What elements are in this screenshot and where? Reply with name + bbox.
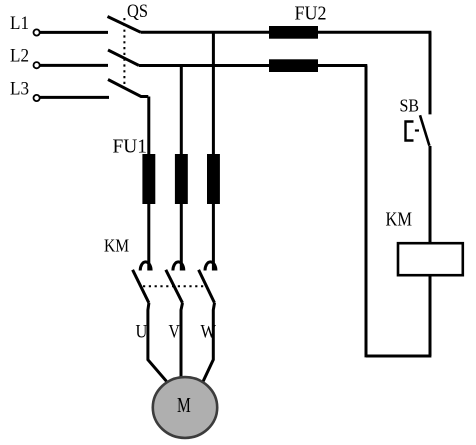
wire top line drop to SB: [429, 32, 432, 114]
wire U phase to motor: [148, 303, 167, 381]
wire phase B drop at x=181: [180, 66, 183, 271]
svg-text:FU2: FU2: [295, 3, 327, 25]
wire phase B: QS to corner: [139, 64, 367, 67]
contact KM3 arc: [205, 262, 216, 271]
contact KM1 blade: [133, 270, 149, 303]
wire V phase to motor: [181, 303, 183, 378]
fuse FU2-1 body: [269, 26, 318, 39]
wire left return riser: [365, 66, 368, 358]
wire phase C drop at x=148.8: [147, 97, 150, 271]
contactor KM linkage (dotted): [143, 285, 206, 287]
wire bottom return: [366, 355, 431, 358]
node L3 terminal: [34, 95, 40, 101]
contact KM2 arc: [173, 262, 184, 271]
switch QS linkage (dotted): [123, 18, 125, 88]
wire KM coil down: [429, 275, 432, 356]
svg-text:L3: L3: [10, 79, 29, 100]
wire L3 to QS: [40, 96, 109, 99]
wire L2 to QS: [40, 64, 108, 67]
coil KM body: [398, 243, 463, 275]
fuse FU1-2 body: [175, 154, 188, 204]
svg-text:L2: L2: [10, 46, 29, 67]
fuse FU1-3 body: [207, 154, 220, 204]
switch QS blade 3: [108, 80, 148, 97]
fuse FU2-2 body: [269, 59, 318, 72]
svg-text:KM: KM: [386, 210, 413, 231]
wire L1 to QS: [40, 31, 108, 34]
svg-text:L1: L1: [10, 13, 29, 34]
fuse FU1-1 body: [142, 154, 155, 204]
svg-text:M: M: [177, 393, 191, 417]
contact KM2 blade: [166, 270, 183, 303]
wire phase A drop at x=213: [212, 32, 215, 270]
contact KM1 arc: [140, 262, 151, 271]
svg-text:U: U: [136, 322, 148, 343]
wire SB to KM coil: [429, 146, 432, 243]
svg-text:KM: KM: [104, 236, 129, 256]
svg-text:SB: SB: [400, 96, 420, 116]
svg-text:QS: QS: [127, 2, 148, 22]
node L1 terminal: [34, 29, 40, 35]
button SB actuator dashed link: [415, 129, 419, 131]
wire phase A top: QS to corner: [141, 31, 432, 34]
motor M body: [153, 377, 217, 438]
svg-text:FU1: FU1: [113, 136, 148, 158]
node L2 terminal: [34, 62, 40, 68]
switch QS blade 1: [108, 17, 141, 33]
switch QS blade 2: [108, 50, 139, 66]
wire W phase to motor: [203, 303, 215, 382]
button SB blade: [420, 115, 429, 146]
svg-text:V: V: [169, 322, 181, 343]
button SB actuator bracket: [406, 122, 414, 141]
svg-text:W: W: [201, 322, 217, 343]
contact KM3 blade: [199, 270, 215, 303]
